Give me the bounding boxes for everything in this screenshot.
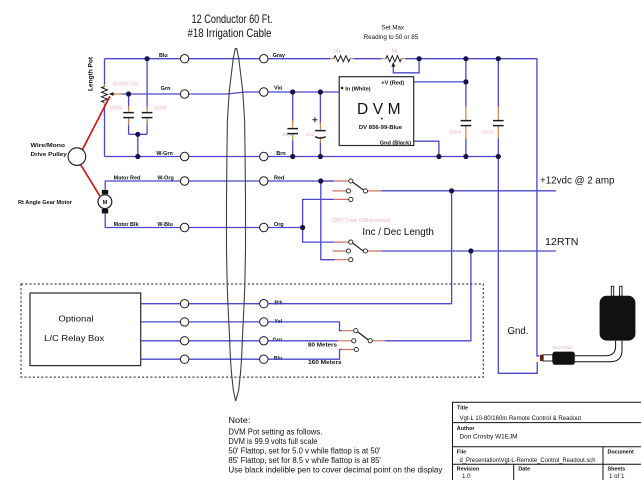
wire row4 MotorRed W-Org Red [105,181,334,190]
wire cap C4 branch electrolytic [319,92,321,157]
svg-text:+12vdc @ 2 amp: +12vdc @ 2 amp [540,174,615,186]
title block texts [457,406,634,473]
capacitor C3 leads [292,120,294,141]
capacitor C2 leads [146,106,148,125]
svg-text:10uf: 10uf [306,132,316,137]
svg-text:Set Max: Set Max [382,25,405,32]
wall wart body [600,296,636,341]
svg-text:(DPDT 3 lever ONM momentary): (DPDT 3 lever ONM momentary) [332,218,390,224]
DVM pin arrow In [340,87,343,90]
cable connector circles right column [260,55,268,364]
svg-text:DVM is 99.9 volts full scale: DVM is 99.9 volts full scale [228,437,318,446]
wire row1 Blu-Gray bus [105,59,540,356]
svg-text:#18 Irrigation Cable: #18 Irrigation Cable [188,26,272,40]
svg-text:5k: 5k [392,49,398,55]
wire pot1 branch vertical [104,59,106,157]
wire row2 Grn left [121,92,339,94]
wire SW1 bottom to SW2 top vertical [303,199,335,242]
junction dots [126,56,501,253]
svg-text:Gnd (Black): Gnd (Black) [380,141,412,147]
svg-text:In (White): In (White) [345,87,371,93]
svg-text:Title: Title [457,406,468,412]
wire relay Yel row [140,322,342,331]
wire cap C3 branch [292,92,294,157]
svg-text:Inc / Dec Length: Inc / Dec Length [362,226,434,238]
cable ellipse [227,49,246,401]
svg-text:Author: Author [457,426,476,432]
potentiometer pot1 Length Pot leads [105,84,122,106]
capacitor C6 leads [497,106,499,139]
power plug cord [575,341,622,362]
switch SW1 leads [333,181,382,199]
cable connector circles left column [180,55,188,364]
svg-text:Date: Date [518,466,530,472]
svg-text:Vgt-L 10-80/160m Remote Contro: Vgt-L 10-80/160m Remote Control & Readou… [460,415,582,422]
svg-text:Document: Document [608,449,635,455]
switch SW3 contacts [352,329,373,352]
wire row5 MotorBlk W-Blu Org [105,213,302,227]
svg-text:DV 856-99-Blue: DV 856-99-Blue [359,125,402,131]
svg-text:Length Pot: Length Pot [89,57,95,91]
svg-text:DVM Pot setting as follows.: DVM Pot setting as follows. [228,428,322,437]
svg-text:1 of 1: 1 of 1 [609,473,625,480]
svg-text:DVM: DVM [357,101,401,118]
svg-text:Grn: Grn [161,86,171,92]
svg-text:100uf: 100uf [450,129,462,134]
capacitor C3 plates [287,129,298,134]
wire relay Grn row [140,340,338,342]
capacitor C1 leads [128,106,130,125]
wire cap C6 branch and ground feed [498,59,537,374]
switch SW2 lever [353,243,364,251]
svg-text:12 Conductor 60 Ft.: 12 Conductor 60 Ft. [192,12,273,26]
note block [228,416,442,475]
drive line pot to pulley [82,96,110,150]
capacitor C4 plus sign [312,117,317,122]
wire cap bus to W-Grn [129,134,148,156]
capacitor C2 plates [142,113,153,118]
svg-text:Revision: Revision [457,466,479,472]
svg-text:Wire/Mono: Wire/Mono [31,143,66,149]
svg-text:1000uf: 1000uf [110,106,123,112]
svg-text:Gnd.: Gnd. [508,325,529,337]
DVM box U1 [339,77,414,146]
wire SW1 top feed [321,180,334,182]
capacitor C6 plates [493,121,504,126]
wire row3 W-Grn Brn [105,156,499,158]
drive line pulley to motor [80,164,100,196]
svg-text:+V (Red): +V (Red) [381,80,404,86]
svg-text:Optional: Optional [58,314,93,324]
wire SW2 pole to 12RTN line [381,250,556,252]
svg-text:50' Flattop, set for 5.0 v whi: 50' Flattop, set for 5.0 v while flattop… [228,447,380,456]
wire cap C2 branch from Blu [146,59,148,135]
switch SW1 lever [353,182,364,190]
capacitor C4 electrolytic plates [315,131,326,139]
DVM dot [381,118,383,120]
wall wart prongs [611,286,613,296]
svg-text:Note:: Note: [228,416,250,425]
wire DVM Gnd to Brn [414,141,439,156]
wire 12RTN to relay switch SW3 pole [385,251,471,341]
potentiometer pot2 leads [381,58,405,60]
power plug barrel [553,352,575,365]
svg-text:Don Crosby W1EJM: Don Crosby W1EJM [460,434,518,441]
resistor R1 leads [330,58,353,60]
svg-text:1.0: 1.0 [462,473,471,480]
motor M1 body [98,195,112,209]
switch SW1 contacts [346,179,367,202]
svg-text:80 Meters: 80 Meters [308,343,337,349]
pink value labels [110,49,573,350]
capacitor C1 plates [123,113,134,118]
capacitor C5 plates [461,121,472,126]
switch SW3 leads [338,331,386,350]
svg-text:Rt Angle Gear Motor: Rt Angle Gear Motor [18,200,73,206]
dashed enclosure box [21,284,483,377]
potentiometer pot1 wiper arrow [109,92,114,96]
svg-text:Reading to 50 or 85: Reading to 50 or 85 [364,34,419,41]
svg-text:12RTN: 12RTN [545,236,579,248]
switch SW2 leads [333,242,382,260]
svg-text:85' Flattop, set for 8.5 v whi: 85' Flattop, set for 8.5 v while flattop… [228,456,381,465]
svg-text:Sheets: Sheets [608,466,626,472]
svg-text:Use black indelible pen to cov: Use black indelible pen to cover decimal… [228,466,442,475]
power plug tip band [540,355,543,361]
potentiometer pot2 zigzag [386,56,401,62]
svg-text:100uf: 100uf [482,129,494,134]
pulley circle [68,148,86,166]
wire Red row to SW2 bottom vertical [321,181,335,260]
wire pot2 wiper loop [393,59,419,73]
potentiometer pot2 wiper arrow [391,62,395,67]
wire +12 to relay Blk [140,191,452,304]
potentiometer pot1 zigzag [102,87,108,103]
svg-text:M: M [103,200,108,206]
capacitor C5 leads [465,106,467,139]
motor M1 terminals [102,190,108,194]
switch SW2 contacts [346,240,367,262]
capacitor C4 electrolytic leads [319,122,321,143]
svg-text:Radio Shack: Radio Shack [553,345,573,350]
svg-text:160 Meters: 160 Meters [308,360,342,366]
wire cap C1 branch [128,94,130,134]
resistor R1 zigzag [334,56,350,62]
svg-text:1000uf: 1000uf [154,106,167,112]
switch SW3 lever [358,332,369,340]
svg-text:L/C Relay Box: L/C Relay Box [44,333,105,343]
wire SW1 pole to +12 line [381,190,556,192]
svg-text:(5k Multi-Turn): (5k Multi-Turn) [112,81,138,87]
title block frame [453,402,641,480]
svg-text:Drive Pulley: Drive Pulley [31,152,68,158]
svg-text:Vio: Vio [274,86,283,92]
wire cap C5 branch [465,59,467,157]
svg-text:File: File [457,449,466,455]
wire DVM +V to bus [414,81,466,83]
wire relay Blu row [140,350,342,360]
svg-text:14k: 14k [333,49,342,55]
svg-text:d_Presentation\Vgt-L-Remote_Co: d_Presentation\Vgt-L-Remote_Control_Read… [460,457,597,464]
relay box [30,293,141,366]
power plug tip [543,355,553,361]
